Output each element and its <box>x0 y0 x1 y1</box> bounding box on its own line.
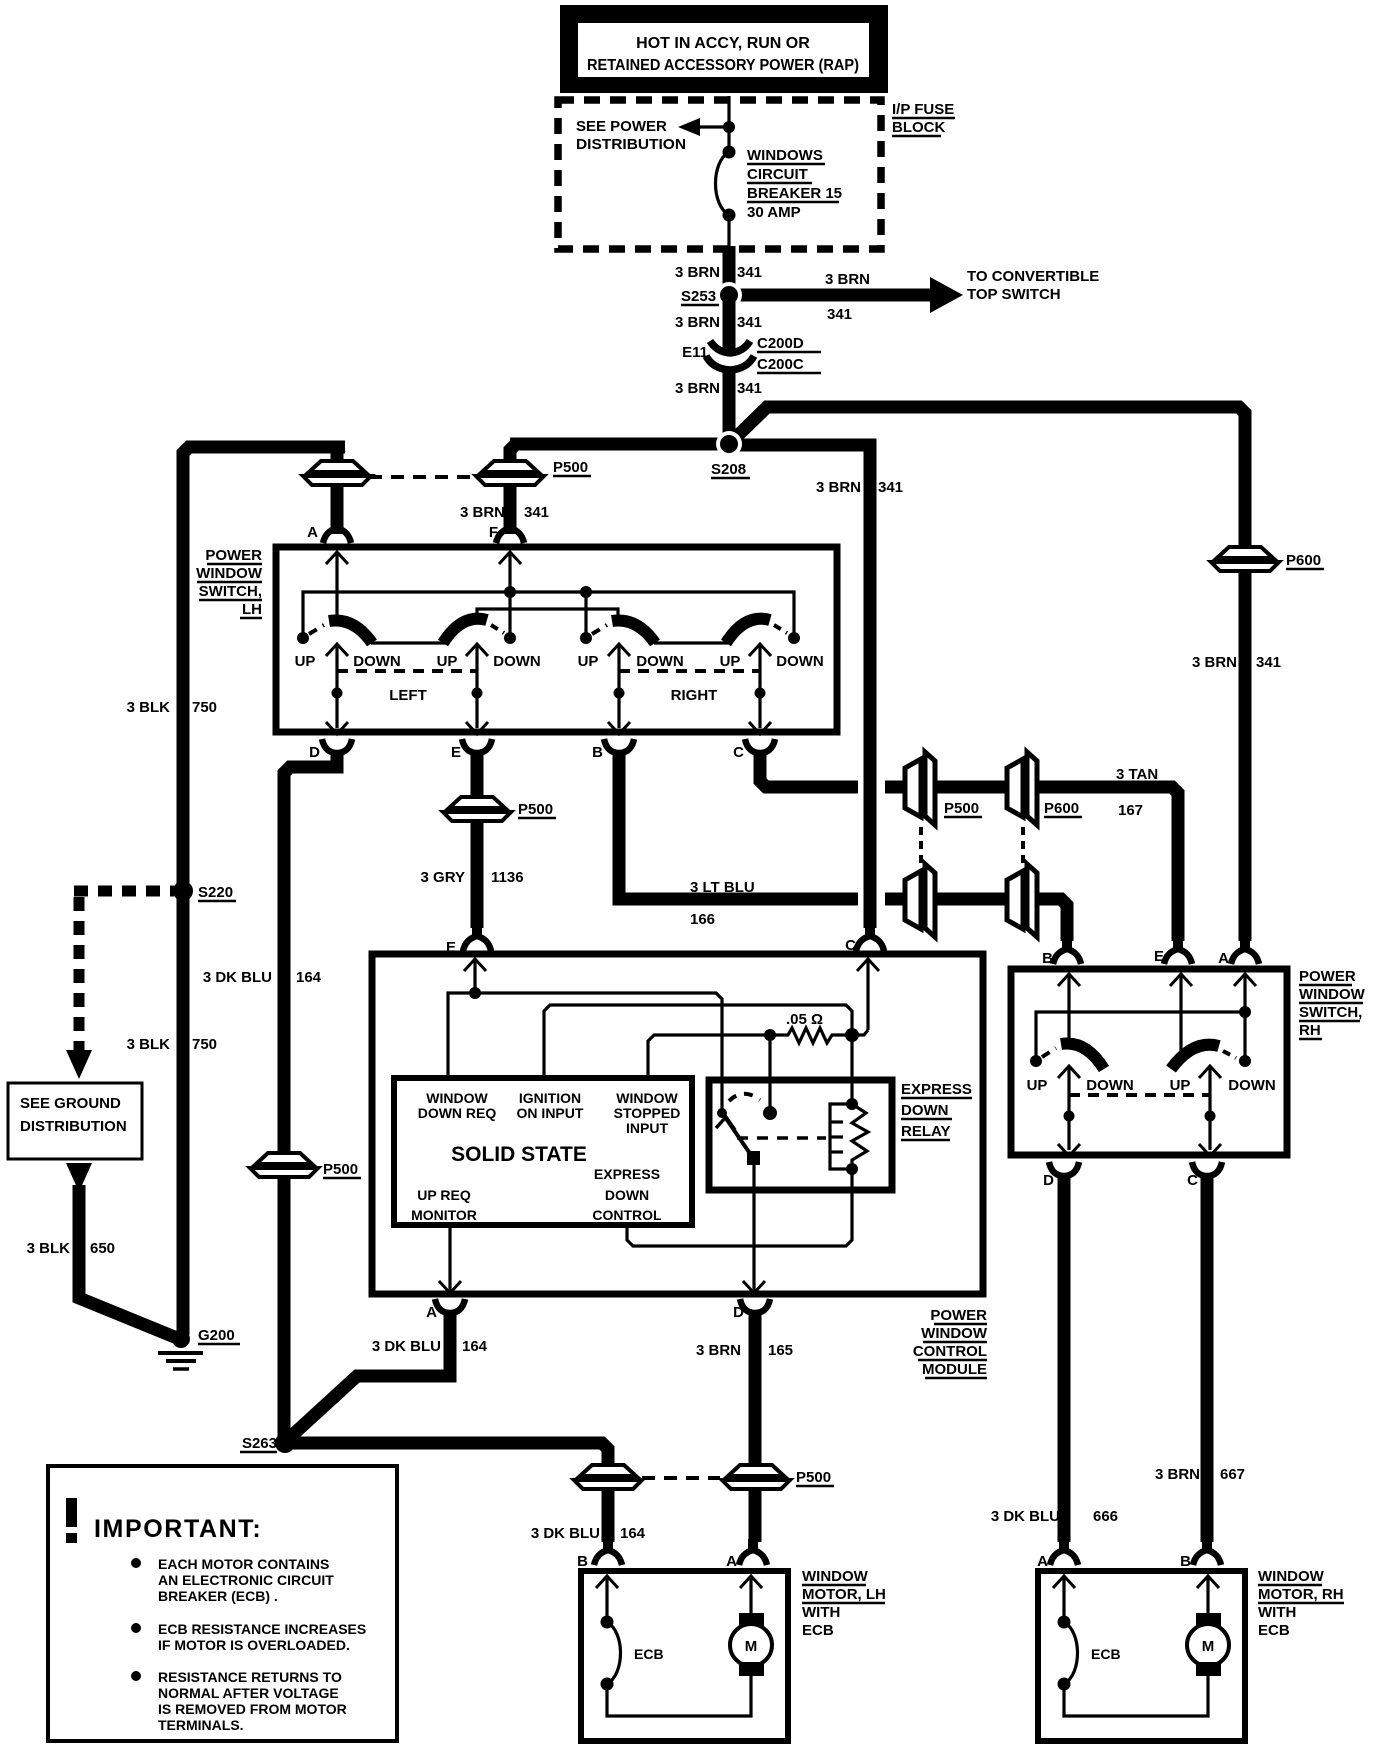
wire breaker to S253 <box>723 246 736 298</box>
wire from power box into breaker <box>727 96 730 150</box>
svg-text:DOWN: DOWN <box>1228 1077 1276 1094</box>
connector pair P500 on 3 TAN wire <box>905 752 935 825</box>
svg-text:B: B <box>1180 1553 1191 1570</box>
wire LH pin B right to RH switch pin B (3 LT BLU 166) <box>619 751 858 899</box>
svg-text:3 BRN: 3 BRN <box>696 1342 741 1359</box>
express down relay box <box>709 1080 892 1190</box>
svg-text:341: 341 <box>827 306 852 323</box>
relay pivot contact <box>717 1108 727 1118</box>
unit3 up contact <box>580 632 592 644</box>
svg-text:WITH: WITH <box>802 1604 840 1621</box>
see power distribution tap <box>697 125 729 128</box>
svg-text:164: 164 <box>620 1525 646 1542</box>
terminal pin A of module <box>435 1299 465 1326</box>
svg-text:TERMINALS.: TERMINALS. <box>158 1717 244 1733</box>
svg-text:WINDOW: WINDOW <box>802 1568 869 1585</box>
svg-text:ECB: ECB <box>802 1622 834 1639</box>
terminal pin B of RH motor <box>1193 1539 1221 1565</box>
svg-text:M: M <box>1202 1638 1215 1655</box>
svg-text:SOLID STATE: SOLID STATE <box>451 1143 587 1166</box>
relay arm alternate position dashed arc <box>729 1094 760 1101</box>
unit2 rocker contact <box>1171 1045 1219 1069</box>
svg-text:C200D: C200D <box>757 335 804 352</box>
svg-text:S220: S220 <box>198 884 233 901</box>
svg-text:B: B <box>592 744 603 761</box>
wire LH pin E down to module pin E <box>471 751 484 928</box>
terminal pin F of LH switch <box>496 517 524 543</box>
wire RH switch pin C to RH motor pin B <box>1201 1178 1214 1542</box>
svg-text:P500: P500 <box>944 800 979 817</box>
unit3 rocker contact <box>612 620 655 643</box>
svg-text:RELAY: RELAY <box>901 1123 950 1140</box>
svg-text:750: 750 <box>192 1036 217 1053</box>
svg-text:E: E <box>451 744 461 761</box>
wire S208 up-right to right rail, down to RH switch pin A <box>729 407 1245 941</box>
svg-text:WINDOW: WINDOW <box>921 1325 988 1342</box>
relay fixed contact <box>763 1106 777 1120</box>
svg-text:B: B <box>577 1553 588 1570</box>
power window control module box <box>372 954 983 1294</box>
svg-text:SWITCH,: SWITCH, <box>1299 1004 1362 1021</box>
wire module pin A to S263 <box>286 1311 450 1441</box>
window motor LH box <box>581 1571 788 1741</box>
RH ECB to motor bottom wire <box>1064 1676 1208 1716</box>
svg-text:CONTROL: CONTROL <box>592 1207 662 1223</box>
grommet P500 pair at floor pan <box>574 1465 642 1489</box>
svg-text:C200C: C200C <box>757 356 804 373</box>
wire RH switch pin D to RH motor pin A <box>1058 1178 1071 1542</box>
dashed pairing line between grommets <box>369 475 474 479</box>
unit1 rocker contact <box>329 620 372 643</box>
svg-text:WINDOW: WINDOW <box>196 565 263 582</box>
wire window stopped input to resistor left node <box>648 1035 770 1078</box>
svg-text:ECB: ECB <box>1258 1622 1290 1639</box>
unit2 output lead to pin C <box>1208 1066 1211 1150</box>
svg-text:ECB RESISTANCE INCREASES: ECB RESISTANCE INCREASES <box>158 1621 366 1637</box>
svg-text:DOWN: DOWN <box>776 653 824 670</box>
unit4 down contact <box>788 632 800 644</box>
svg-text:750: 750 <box>192 699 217 716</box>
grommet P500 on F wire <box>476 461 544 485</box>
wire coil bottom to express down control <box>627 1169 852 1246</box>
power source box <box>560 5 888 93</box>
svg-text:IMPORTANT:: IMPORTANT: <box>94 1515 262 1543</box>
svg-text:164: 164 <box>462 1338 488 1355</box>
wire S208 right, down to module pin C <box>729 445 870 928</box>
svg-text:UP: UP <box>437 653 458 670</box>
windows circuit breaker 15 <box>723 146 736 159</box>
svg-text:3 BLK: 3 BLK <box>127 699 171 716</box>
svg-text:3 TAN: 3 TAN <box>1116 766 1158 783</box>
terminal pin D of RH switch <box>1049 1162 1079 1189</box>
svg-text:DISTRIBUTION: DISTRIBUTION <box>576 136 686 153</box>
svg-text:3 BRN: 3 BRN <box>675 380 720 397</box>
terminal pin E of module <box>463 925 491 951</box>
svg-text:A: A <box>426 1304 437 1321</box>
svg-text:650: 650 <box>90 1240 115 1257</box>
I/P fuse block dashed box <box>558 100 881 249</box>
svg-text:ECB: ECB <box>1091 1646 1121 1662</box>
connector E11 C200D/C200C <box>710 341 750 353</box>
svg-text:IGNITION: IGNITION <box>519 1090 581 1106</box>
svg-text:3 BRN: 3 BRN <box>675 264 720 281</box>
svg-text:666: 666 <box>1093 1508 1118 1525</box>
unit2 down contact <box>1239 1055 1251 1067</box>
link line unit3-unit4 <box>654 641 728 644</box>
important note box <box>48 1466 397 1741</box>
svg-text:341: 341 <box>737 314 762 331</box>
svg-text:3 BRN: 3 BRN <box>1192 654 1237 671</box>
linkage dashed RH <box>1069 1093 1210 1097</box>
unit1 rocker contact <box>1061 1044 1104 1069</box>
terminal pin D <box>322 739 352 766</box>
svg-text:CONTROL: CONTROL <box>913 1343 987 1360</box>
relay coil <box>846 1098 858 1110</box>
svg-text:P600: P600 <box>1286 552 1321 569</box>
top left rail: wire to LH switch pin A and down left side <box>183 447 345 1335</box>
wire ignition on input riser <box>544 1005 852 1104</box>
RH motor pin A inner lead <box>1062 1576 1065 1620</box>
svg-text:MOTOR, LH: MOTOR, LH <box>802 1586 886 1603</box>
wire F drop to LH switch pin F <box>510 444 516 534</box>
svg-text:E11: E11 <box>682 344 708 361</box>
RH motor pin B inner lead <box>1206 1576 1209 1616</box>
unit1 output lead to pin D <box>335 644 338 728</box>
svg-text:3 LT BLU: 3 LT BLU <box>690 879 755 896</box>
svg-text:165: 165 <box>768 1342 793 1359</box>
svg-text:667: 667 <box>1220 1466 1245 1483</box>
svg-text:P500: P500 <box>553 459 588 476</box>
svg-text:NORMAL AFTER VOLTAGE: NORMAL AFTER VOLTAGE <box>158 1685 339 1701</box>
wire ground distribution to G200 <box>66 1163 92 1192</box>
svg-text:D: D <box>733 1304 744 1321</box>
terminal pin B <box>604 739 634 766</box>
svg-text:STOPPED: STOPPED <box>614 1105 681 1121</box>
see ground distribution box <box>8 1083 142 1159</box>
mechanical link dashed <box>737 1136 826 1140</box>
node on bus and drop to unit3 up contact <box>580 586 592 598</box>
left pair linkage <box>337 669 477 673</box>
svg-text:3 GRY: 3 GRY <box>421 869 465 886</box>
unit3 output lead to pin B <box>617 644 620 728</box>
terminal pin B of LH motor <box>594 1539 622 1565</box>
svg-text:AN ELECTRONIC CIRCUIT: AN ELECTRONIC CIRCUIT <box>158 1572 334 1588</box>
terminal pin E <box>462 739 492 766</box>
svg-text:DOWN: DOWN <box>605 1187 649 1203</box>
svg-text:MOTOR, RH: MOTOR, RH <box>1258 1586 1344 1603</box>
pin F inner lead <box>508 552 511 638</box>
svg-text:D: D <box>309 744 320 761</box>
terminal pin C of module <box>856 925 884 951</box>
terminal pin E of RH switch <box>1164 938 1192 964</box>
svg-text:3 BLK: 3 BLK <box>127 1036 171 1053</box>
RH ECB breaker <box>1058 1616 1071 1629</box>
LH motor pin A inner lead <box>749 1576 752 1616</box>
svg-text:G200: G200 <box>198 1327 235 1344</box>
svg-text:WINDOWS: WINDOWS <box>747 147 823 164</box>
unit4 rocker contact <box>726 619 770 643</box>
RH bus line <box>1036 1012 1245 1061</box>
svg-text:DOWN: DOWN <box>493 653 541 670</box>
svg-text:164: 164 <box>296 969 322 986</box>
window motor RH box <box>1038 1571 1245 1741</box>
svg-text:EXPRESS: EXPRESS <box>594 1166 660 1182</box>
svg-text:ON INPUT: ON INPUT <box>517 1105 584 1121</box>
svg-text:BLOCK: BLOCK <box>892 119 945 136</box>
svg-text:DOWN: DOWN <box>636 653 684 670</box>
svg-text:341: 341 <box>878 479 903 496</box>
unit2 rocker contact <box>443 619 487 643</box>
splice S220 <box>173 881 193 901</box>
svg-text:UP: UP <box>295 653 316 670</box>
svg-text:S263: S263 <box>242 1435 277 1452</box>
dashed wire S220 to ground distribution <box>74 886 174 897</box>
power window switch LH box <box>276 547 837 732</box>
svg-text:3 DK BLU: 3 DK BLU <box>203 969 272 986</box>
grommet P500 on D wire <box>250 1153 318 1177</box>
svg-text:1136: 1136 <box>491 869 524 886</box>
LH ECB to motor bottom wire <box>607 1676 751 1716</box>
svg-text:A: A <box>726 1553 737 1570</box>
svg-text:WINDOW: WINDOW <box>616 1090 678 1106</box>
unit2 output lead to pin E <box>475 644 478 728</box>
connector pair P600 on 3 TAN wire <box>1007 752 1037 825</box>
pin B inner lead <box>1067 974 1070 1045</box>
svg-text:C: C <box>1187 1172 1198 1189</box>
svg-text:UP REQ: UP REQ <box>417 1187 471 1203</box>
splice S263 <box>275 1433 295 1453</box>
svg-text:UP: UP <box>1170 1077 1191 1094</box>
wire E11 to S208 <box>723 367 736 449</box>
unit2 down contact <box>504 632 516 644</box>
svg-text:P500: P500 <box>518 801 553 818</box>
svg-text:3 BRN: 3 BRN <box>816 479 861 496</box>
LH motor pin B inner lead <box>605 1576 608 1620</box>
svg-text:DOWN: DOWN <box>1086 1077 1134 1094</box>
node at tap <box>723 121 735 133</box>
wire module pin D to LH motor pin A <box>749 1311 762 1542</box>
svg-text:3 BLK: 3 BLK <box>27 1240 71 1257</box>
svg-text:MODULE: MODULE <box>922 1361 987 1378</box>
wire relay arm to pin D <box>752 1163 755 1293</box>
svg-text:A: A <box>1218 950 1229 967</box>
grommet P500 on E wire <box>443 797 511 821</box>
wire S263 to LH motor pin B <box>285 1443 608 1542</box>
node on bus at F <box>504 586 516 598</box>
svg-text:MONITOR: MONITOR <box>411 1207 477 1223</box>
svg-text:EXPRESS: EXPRESS <box>901 1081 972 1098</box>
relay movable arm <box>723 1114 753 1158</box>
terminal pin A of RH motor <box>1050 1539 1078 1565</box>
RH motor M <box>1196 1613 1221 1627</box>
ground G200 <box>172 1330 190 1348</box>
wire A drop <box>337 447 341 534</box>
svg-text:WINDOW: WINDOW <box>1258 1568 1325 1585</box>
svg-text:BREAKER (ECB) .: BREAKER (ECB) . <box>158 1588 278 1604</box>
svg-text:DOWN: DOWN <box>901 1102 949 1119</box>
terminal pin A of RH switch <box>1231 938 1259 964</box>
svg-text:DISTRIBUTION: DISTRIBUTION <box>20 1118 127 1135</box>
pin A inner lead <box>335 552 338 620</box>
wire S253 to E11 <box>723 295 736 352</box>
pin E inner lead <box>1179 974 1182 1056</box>
svg-text:M: M <box>745 1638 758 1655</box>
LH ECB breaker <box>601 1616 614 1629</box>
svg-text:LH: LH <box>242 601 262 618</box>
svg-text:IS REMOVED FROM MOTOR: IS REMOVED FROM MOTOR <box>158 1701 347 1717</box>
pin E inner lead and node <box>473 959 476 993</box>
dashed links between connector pairs <box>919 827 923 864</box>
pin A inner lead <box>1243 974 1246 1061</box>
svg-text:D: D <box>1043 1172 1054 1189</box>
svg-text:POWER: POWER <box>930 1307 987 1324</box>
unit1 up contact <box>297 632 309 644</box>
svg-text:UP: UP <box>1027 1077 1048 1094</box>
svg-text:RETAINED ACCESSORY POWER (RAP): RETAINED ACCESSORY POWER (RAP) <box>587 57 859 74</box>
svg-text:341: 341 <box>524 504 549 521</box>
svg-text:POWER: POWER <box>1299 968 1356 985</box>
svg-text:167: 167 <box>1118 802 1143 819</box>
pin C inner lead <box>866 959 869 1030</box>
right pair linkage <box>619 669 760 673</box>
wire resistor left node down to relay fixed contact <box>768 1035 771 1113</box>
relay arm lower terminal <box>747 1151 760 1165</box>
wire LH pin C right to RH switch pin E (3 TAN 167) <box>760 751 858 787</box>
svg-text:WITH: WITH <box>1258 1604 1296 1621</box>
wire up req monitor to pin A <box>448 1225 451 1293</box>
svg-text:B: B <box>1042 950 1053 967</box>
svg-text:3 BRN: 3 BRN <box>825 271 870 288</box>
svg-text:RESISTANCE RETURNS TO: RESISTANCE RETURNS TO <box>158 1669 342 1685</box>
grommet P600 <box>1211 547 1279 571</box>
svg-text:341: 341 <box>737 380 762 397</box>
terminal pin C of RH switch <box>1192 1162 1222 1189</box>
second bus line <box>477 609 618 620</box>
svg-text:3 DK BLU: 3 DK BLU <box>372 1338 441 1355</box>
svg-text:P600: P600 <box>1044 800 1079 817</box>
svg-text:166: 166 <box>690 911 715 928</box>
svg-text:30 AMP: 30 AMP <box>747 204 801 221</box>
svg-text:BREAKER 15: BREAKER 15 <box>747 185 842 202</box>
unit1 up contact <box>1030 1055 1042 1067</box>
svg-text:3 DK BLU: 3 DK BLU <box>531 1525 600 1542</box>
svg-text:IF MOTOR IS OVERLOADED.: IF MOTOR IS OVERLOADED. <box>158 1637 350 1653</box>
svg-text:341: 341 <box>737 264 762 281</box>
svg-text:EACH MOTOR CONTAINS: EACH MOTOR CONTAINS <box>158 1556 329 1572</box>
svg-text:DOWN: DOWN <box>353 653 401 670</box>
wire S253 to convertible top switch <box>729 289 932 302</box>
terminal pin D of module <box>740 1299 770 1326</box>
svg-text:3 DK BLU: 3 DK BLU <box>991 1508 1060 1525</box>
wire node to relay common <box>475 993 722 1113</box>
svg-text:A: A <box>307 524 318 541</box>
splice S253 <box>716 282 742 308</box>
svg-text:WINDOW: WINDOW <box>1299 986 1366 1003</box>
solid state box <box>394 1078 692 1225</box>
svg-text:POWER: POWER <box>205 547 262 564</box>
svg-text:TOP SWITCH: TOP SWITCH <box>967 286 1061 303</box>
svg-text:RH: RH <box>1299 1022 1321 1039</box>
svg-text:3 BRN: 3 BRN <box>675 314 720 331</box>
svg-text:3 BRN: 3 BRN <box>460 504 505 521</box>
terminal pin A of LH switch <box>323 517 351 543</box>
connector pair P600 on 3 LT BLU wire <box>1007 864 1037 937</box>
terminal pin A of LH motor <box>739 1539 767 1565</box>
svg-text:I/P FUSE: I/P FUSE <box>892 101 954 118</box>
wire LH pin D down-left and to S263 <box>284 751 337 1437</box>
svg-text:S208: S208 <box>711 461 746 478</box>
svg-text:P500: P500 <box>796 1469 831 1486</box>
terminal pin C <box>745 739 775 766</box>
svg-text:SWITCH,: SWITCH, <box>199 583 262 600</box>
svg-text:UP: UP <box>720 653 741 670</box>
svg-text:WINDOW: WINDOW <box>426 1090 488 1106</box>
svg-text:TO CONVERTIBLE: TO CONVERTIBLE <box>967 268 1099 285</box>
link line unit1-unit2 <box>371 641 445 644</box>
unit1 output lead to pin D <box>1067 1066 1070 1150</box>
svg-text:E: E <box>1154 948 1164 965</box>
svg-text:341: 341 <box>1256 654 1281 671</box>
up bus line <box>303 592 794 638</box>
svg-text:3 BRN: 3 BRN <box>1155 1466 1200 1483</box>
svg-text:F: F <box>489 524 498 541</box>
wire S208 left to pin F drop <box>510 438 729 451</box>
grommet on A wire <box>303 461 371 485</box>
connector pair P500 on 3 LT BLU wire <box>905 864 935 937</box>
splice S208 <box>716 431 742 457</box>
svg-text:.05 Ω: .05 Ω <box>786 1011 823 1028</box>
power window switch RH box <box>1011 969 1287 1155</box>
LH motor M <box>739 1613 764 1627</box>
svg-text:LEFT: LEFT <box>389 687 427 704</box>
svg-text:C: C <box>733 744 744 761</box>
svg-text:S253: S253 <box>681 288 716 305</box>
svg-text:HOT IN ACCY, RUN OR: HOT IN ACCY, RUN OR <box>636 35 810 52</box>
unit4 output lead to pin C <box>758 644 761 728</box>
svg-text:RIGHT: RIGHT <box>671 687 718 704</box>
svg-text:A: A <box>1037 1553 1048 1570</box>
svg-text:SEE POWER: SEE POWER <box>576 118 667 135</box>
wire node to window down req input <box>448 993 475 1078</box>
svg-text:UP: UP <box>578 653 599 670</box>
svg-text:DOWN REQ: DOWN REQ <box>418 1105 497 1121</box>
svg-text:P500: P500 <box>323 1161 358 1178</box>
svg-text:SEE GROUND: SEE GROUND <box>20 1095 121 1112</box>
svg-text:INPUT: INPUT <box>626 1120 668 1136</box>
terminal pin B of RH switch <box>1053 938 1081 964</box>
svg-text:ECB: ECB <box>634 1646 664 1662</box>
svg-text:CIRCUIT: CIRCUIT <box>747 166 808 183</box>
